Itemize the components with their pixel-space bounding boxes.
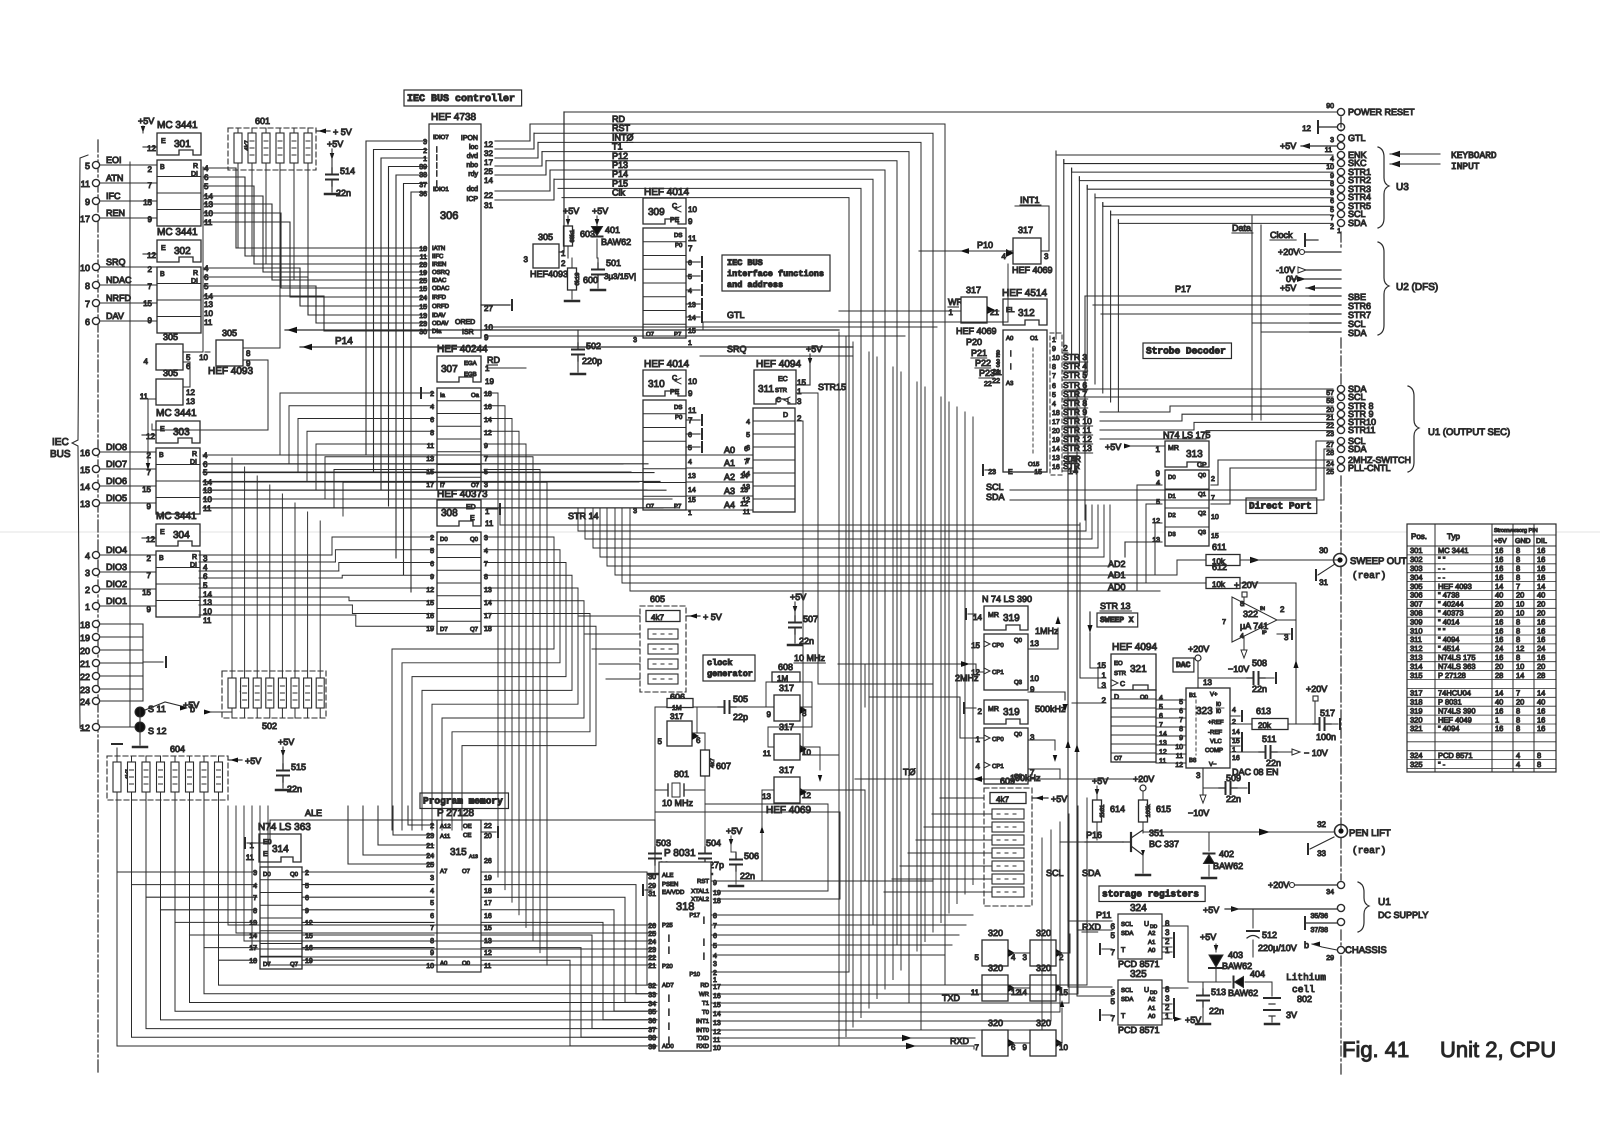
svg-text:B: B xyxy=(160,164,165,171)
svg-text:318: 318 xyxy=(1410,698,1423,707)
svg-text:26: 26 xyxy=(648,923,656,930)
svg-text:12: 12 xyxy=(1302,124,1311,133)
svg-text:+5V: +5V xyxy=(1203,905,1219,915)
svg-text:614: 614 xyxy=(1110,804,1125,814)
svg-text:8: 8 xyxy=(1516,573,1520,582)
svg-text:14: 14 xyxy=(1159,731,1167,738)
svg-text:22n: 22n xyxy=(1226,794,1241,804)
svg-text:+5V: +5V xyxy=(183,700,199,710)
svg-text:512: 512 xyxy=(1262,930,1277,940)
label SWEEP X xyxy=(1087,612,1137,633)
svg-text:12: 12 xyxy=(742,497,750,504)
wire MC3441 to 306 xyxy=(204,168,427,331)
wire DIO to 308 xyxy=(332,537,434,626)
svg-text:21: 21 xyxy=(994,370,1002,377)
svg-text:HEF 4093: HEF 4093 xyxy=(208,366,253,377)
counter U319b N74LS390 xyxy=(964,700,1066,784)
svg-text:P7: P7 xyxy=(674,503,682,510)
svg-text:INT1: INT1 xyxy=(696,1018,710,1025)
svg-text:P14: P14 xyxy=(335,336,353,347)
svg-text:20: 20 xyxy=(484,833,492,840)
svg-text:3: 3 xyxy=(484,482,488,489)
brace U3 xyxy=(1378,147,1409,228)
svg-text:2MHz: 2MHz xyxy=(955,673,979,683)
wire 321 inputs xyxy=(1072,523,1106,703)
svg-text:15: 15 xyxy=(688,328,696,335)
svg-text:STR: STR xyxy=(1114,670,1127,677)
svg-text:16: 16 xyxy=(1537,626,1545,635)
svg-text:REN: REN xyxy=(106,208,125,218)
buffer 320c HEF4049 xyxy=(971,963,1021,1001)
svg-text:22n: 22n xyxy=(1252,684,1267,694)
svg-text:12: 12 xyxy=(147,251,156,260)
svg-text:325: 325 xyxy=(1410,760,1423,769)
buffer 320b HEF4049 xyxy=(1023,928,1064,966)
svg-text:N 74 LS 390: N 74 LS 390 xyxy=(982,594,1032,604)
svg-text:MC 3441: MC 3441 xyxy=(157,227,198,238)
svg-text:A1: A1 xyxy=(724,458,735,468)
wire 500kHz xyxy=(984,740,1057,762)
svg-text:57: 57 xyxy=(1326,390,1334,397)
svg-text:DD: DD xyxy=(1150,924,1158,930)
svg-text:A2: A2 xyxy=(1148,996,1156,1003)
svg-text:15: 15 xyxy=(1211,533,1219,540)
capacitor 505 22p xyxy=(718,694,748,722)
svg-text:1: 1 xyxy=(688,340,692,347)
capacitor 517 100n xyxy=(1306,684,1340,742)
svg-text:SWEEP X: SWEEP X xyxy=(1100,616,1134,625)
IEC BUS bracket xyxy=(50,155,88,731)
svg-text:22n: 22n xyxy=(1266,758,1281,768)
svg-text:U: U xyxy=(1144,921,1149,928)
svg-text:18: 18 xyxy=(484,888,492,895)
buffer 320f HEF4049 xyxy=(1023,1018,1069,1056)
svg-text:320: 320 xyxy=(988,928,1003,938)
svg-text:HEF 4014: HEF 4014 xyxy=(644,359,689,370)
svg-text:+5V: +5V xyxy=(1494,538,1507,545)
label RXD xyxy=(950,1036,970,1046)
connector pin37/38 xyxy=(1305,917,1345,934)
svg-text:11: 11 xyxy=(743,509,750,516)
svg-text:13: 13 xyxy=(186,397,195,406)
svg-text:clock: clock xyxy=(707,658,733,668)
svg-text:A0: A0 xyxy=(1006,335,1014,342)
svg-text:" 40244: " 40244 xyxy=(1438,600,1464,609)
svg-text:2: 2 xyxy=(147,554,152,563)
svg-text:O7: O7 xyxy=(471,482,480,489)
svg-text:|: | xyxy=(668,946,670,954)
svg-text:|: | xyxy=(668,934,670,942)
svg-text:VLC: VLC xyxy=(1210,738,1222,745)
svg-text:O0: O0 xyxy=(1140,694,1149,701)
svg-text:15: 15 xyxy=(797,378,806,387)
svg-text:305: 305 xyxy=(163,332,178,342)
svg-text:7: 7 xyxy=(713,923,717,930)
svg-text:Oa: Oa xyxy=(471,392,480,399)
svg-text:5: 5 xyxy=(1111,931,1116,940)
svg-text:DIO8: DIO8 xyxy=(106,442,127,452)
svg-text:15: 15 xyxy=(1034,469,1042,476)
svg-text:RST: RST xyxy=(697,878,709,885)
svg-text:2: 2 xyxy=(1232,719,1236,726)
svg-text:- -: - - xyxy=(1438,573,1446,582)
svg-text:1MHz: 1MHz xyxy=(1035,626,1059,636)
wire XTAL xyxy=(655,804,840,899)
svg-text:A2: A2 xyxy=(1148,930,1156,937)
svg-text:Q2: Q2 xyxy=(1198,510,1207,517)
svg-text:309: 309 xyxy=(648,207,665,218)
svg-text:403: 403 xyxy=(1228,950,1243,960)
svg-text:6: 6 xyxy=(430,913,434,920)
svg-text:9: 9 xyxy=(148,316,153,325)
svg-text:14: 14 xyxy=(249,933,257,940)
resistor 614 2k61 xyxy=(1092,776,1125,840)
wire DIO rows xyxy=(199,455,663,615)
svg-text:402: 402 xyxy=(1219,849,1234,859)
svg-text:3: 3 xyxy=(423,139,427,146)
svg-text:4: 4 xyxy=(1330,156,1334,163)
wire 306 IDIO staircase xyxy=(366,141,427,592)
svg-text:3: 3 xyxy=(633,508,637,515)
svg-text:16: 16 xyxy=(484,404,492,411)
svg-text:220p: 220p xyxy=(582,356,602,366)
svg-text:16: 16 xyxy=(305,945,313,952)
svg-text:O1: O1 xyxy=(1030,335,1039,342)
svg-text:HEF 4514: HEF 4514 xyxy=(1002,288,1047,299)
label RXD top xyxy=(1082,922,1102,932)
nand gate 305b HEF4093 xyxy=(140,368,196,406)
svg-text:2: 2 xyxy=(430,391,434,398)
svg-text:303: 303 xyxy=(1410,564,1423,573)
svg-text:KEYBOARD: KEYBOARD xyxy=(1451,150,1497,161)
svg-text:509: 509 xyxy=(1226,773,1241,783)
svg-text:32: 32 xyxy=(1317,820,1326,829)
svg-text:E: E xyxy=(161,138,166,145)
resistor 612 10k xyxy=(1206,562,1240,589)
svg-text:7: 7 xyxy=(253,895,257,902)
svg-text:HEF 4069: HEF 4069 xyxy=(766,805,811,816)
connector GTL xyxy=(1302,121,1365,144)
svg-text:16: 16 xyxy=(1495,555,1503,564)
svg-text:D2: D2 xyxy=(1168,512,1176,519)
svg-text:7: 7 xyxy=(430,925,434,932)
svg-text:P25: P25 xyxy=(662,922,673,929)
svg-text:16: 16 xyxy=(1537,635,1545,644)
svg-text:14: 14 xyxy=(1537,689,1545,698)
wire P10 net xyxy=(919,206,1049,254)
svg-text:16: 16 xyxy=(426,613,434,620)
shift register U311 HEF4094 xyxy=(742,344,846,516)
svg-text:15: 15 xyxy=(419,304,427,311)
svg-text:EC: EC xyxy=(778,376,788,383)
svg-text:6: 6 xyxy=(688,432,692,439)
svg-text:24: 24 xyxy=(426,853,434,860)
svg-text:1: 1 xyxy=(1102,671,1107,680)
svg-text:-REF: -REF xyxy=(1208,729,1222,736)
svg-text:HEF 4738: HEF 4738 xyxy=(431,112,476,123)
svg-text:22: 22 xyxy=(80,672,90,682)
svg-text:22: 22 xyxy=(1326,423,1334,430)
svg-text:16: 16 xyxy=(1495,564,1503,573)
svg-text:PE: PE xyxy=(670,389,680,396)
svg-text:P17: P17 xyxy=(1175,284,1191,294)
svg-text:9: 9 xyxy=(85,197,90,207)
parts table xyxy=(1407,524,1556,772)
svg-text:IP: IP xyxy=(1262,630,1267,636)
capacitor 504 27p xyxy=(698,776,724,874)
svg-text:+20V: +20V xyxy=(1306,684,1327,694)
svg-text:6: 6 xyxy=(696,736,701,745)
svg-text:501: 501 xyxy=(606,258,621,268)
svg-text:612: 612 xyxy=(1212,562,1227,572)
label IEC BUS interface functions xyxy=(722,255,830,291)
svg-text:10: 10 xyxy=(426,963,434,970)
svg-text:320: 320 xyxy=(988,1018,1003,1028)
wire SDA SCL U1 xyxy=(1010,389,1333,500)
svg-text:10: 10 xyxy=(688,377,697,386)
svg-text:21: 21 xyxy=(1326,415,1334,422)
svg-text:4: 4 xyxy=(1516,751,1520,760)
svg-text:4k7: 4k7 xyxy=(709,758,716,768)
svg-text:2: 2 xyxy=(996,352,1000,359)
svg-text:2: 2 xyxy=(1165,1003,1170,1012)
svg-text:1: 1 xyxy=(995,308,1000,317)
svg-text:DIO4: DIO4 xyxy=(106,545,127,555)
svg-text:N74LS 390: N74LS 390 xyxy=(1438,706,1476,715)
svg-text:5: 5 xyxy=(1052,392,1056,399)
svg-text:23: 23 xyxy=(648,947,656,954)
svg-text:15: 15 xyxy=(142,485,151,494)
svg-text:18: 18 xyxy=(484,626,492,633)
svg-text:13: 13 xyxy=(1030,639,1039,648)
svg-text:2: 2 xyxy=(85,585,90,595)
svg-text:10: 10 xyxy=(484,323,493,332)
svg-text:3: 3 xyxy=(713,961,717,968)
capacitor 509 22n xyxy=(1188,768,1249,818)
svg-text:314: 314 xyxy=(1410,662,1423,671)
svg-text:12: 12 xyxy=(1152,518,1160,525)
svg-text:321: 321 xyxy=(1410,724,1423,733)
svg-text:100k: 100k xyxy=(1145,803,1152,817)
capacitor 503 22p xyxy=(648,790,674,874)
wire 311 outputs xyxy=(796,330,933,755)
svg-text:(rear): (rear) xyxy=(1352,845,1386,856)
svg-text:6: 6 xyxy=(1159,713,1163,720)
svg-text:17: 17 xyxy=(484,613,492,620)
svg-text:19: 19 xyxy=(484,875,492,882)
capacitor 514 22n xyxy=(325,139,355,198)
svg-text:13: 13 xyxy=(742,484,750,491)
svg-text:17: 17 xyxy=(426,482,434,489)
svg-text:8: 8 xyxy=(1516,546,1520,555)
svg-text:16: 16 xyxy=(1537,555,1545,564)
svg-text:301: 301 xyxy=(174,139,191,150)
svg-text:U: U xyxy=(1144,987,1149,994)
svg-text:511: 511 xyxy=(1262,734,1276,744)
svg-text:+ 5V: + 5V xyxy=(333,127,352,137)
svg-text:26: 26 xyxy=(484,858,492,865)
IEC connector pins 18-24 xyxy=(80,620,166,707)
svg-text:11: 11 xyxy=(688,406,697,415)
svg-text:SRQ: SRQ xyxy=(106,257,126,267)
wire P14 xyxy=(285,327,853,350)
svg-text:302: 302 xyxy=(1410,555,1423,564)
svg-text:CP1: CP1 xyxy=(992,763,1004,770)
svg-text:BAW62: BAW62 xyxy=(601,237,631,247)
svg-text:306: 306 xyxy=(440,210,458,222)
diode 404 BAW62 xyxy=(1188,969,1272,998)
resistor 603 68k1 xyxy=(563,206,595,258)
svg-text:XTAL2: XTAL2 xyxy=(691,896,710,903)
svg-text:|: | xyxy=(703,952,705,960)
svg-text:29: 29 xyxy=(648,883,656,890)
svg-text:E: E xyxy=(1008,469,1013,476)
svg-text:37/38: 37/38 xyxy=(1310,926,1328,934)
svg-text:307: 307 xyxy=(441,364,458,375)
strobe decoder U312 HEF4514 xyxy=(983,288,1047,476)
wire 306 outputs to bus xyxy=(495,124,554,200)
svg-text:502: 502 xyxy=(586,341,601,351)
wire 318 P1 ports risers xyxy=(713,915,973,955)
svg-text:319: 319 xyxy=(1410,706,1423,715)
svg-text:8: 8 xyxy=(246,349,251,358)
svg-text:11: 11 xyxy=(971,988,980,997)
svg-text:A3: A3 xyxy=(724,486,735,496)
svg-text:NRFD: NRFD xyxy=(106,293,131,303)
wire 609 rows xyxy=(884,798,992,892)
svg-text:9: 9 xyxy=(147,605,152,614)
wire AD bus nest left xyxy=(117,800,657,1046)
svg-text:17: 17 xyxy=(484,900,492,907)
svg-text:320: 320 xyxy=(1036,928,1051,938)
wire top bus RD-Clk xyxy=(530,114,945,1030)
svg-text:1: 1 xyxy=(1165,1012,1170,1021)
bus buffer U307 HEF40244 xyxy=(421,344,500,490)
svg-text:9: 9 xyxy=(1030,685,1035,694)
svg-text:28: 28 xyxy=(1537,671,1545,680)
svg-text:E: E xyxy=(160,529,165,536)
svg-text:314: 314 xyxy=(272,844,289,855)
svg-text:16: 16 xyxy=(1537,564,1545,573)
svg-text:3: 3 xyxy=(996,362,1000,369)
svg-text:16: 16 xyxy=(1537,724,1545,733)
svg-text:25: 25 xyxy=(1326,469,1334,476)
latch U308 HEF40373 xyxy=(426,489,500,634)
svg-text:P 8031: P 8031 xyxy=(1438,698,1462,707)
svg-text:6: 6 xyxy=(713,933,717,940)
svg-text:+20V: +20V xyxy=(1278,247,1299,257)
svg-text:29: 29 xyxy=(1326,955,1334,962)
svg-text:24: 24 xyxy=(419,295,427,302)
svg-text:3: 3 xyxy=(1102,681,1107,690)
wire 320 links xyxy=(1008,934,1076,1043)
svg-text:40: 40 xyxy=(1495,698,1503,707)
svg-text:P16: P16 xyxy=(1086,830,1102,840)
svg-text:13: 13 xyxy=(762,792,771,801)
svg-text:SDA: SDA xyxy=(1348,218,1367,228)
svg-text:Q0: Q0 xyxy=(1014,637,1023,644)
IEC connector SRQ/NDAC/NRFD/DAV xyxy=(80,257,157,327)
svg-text:IEC BUS: IEC BUS xyxy=(727,258,763,268)
svg-text:WR: WR xyxy=(699,991,710,998)
svg-text:|: | xyxy=(703,938,705,946)
svg-text:11: 11 xyxy=(81,179,90,189)
wire 601 pulldowns xyxy=(238,170,308,288)
svg-text:5: 5 xyxy=(688,274,692,281)
svg-text:R: R xyxy=(192,554,197,561)
svg-text:B: B xyxy=(159,555,164,562)
svg-text:Q0: Q0 xyxy=(1014,731,1023,738)
svg-text:303: 303 xyxy=(173,427,190,438)
svg-text:32: 32 xyxy=(484,149,493,158)
svg-text:5: 5 xyxy=(1330,207,1334,214)
wire 305 gates xyxy=(130,162,280,727)
svg-text:1: 1 xyxy=(1232,747,1236,754)
svg-text:ALE: ALE xyxy=(305,808,322,818)
svg-text:RD: RD xyxy=(487,355,500,365)
svg-text:19: 19 xyxy=(485,377,494,386)
svg-text:100n: 100n xyxy=(1316,732,1336,742)
svg-text:12: 12 xyxy=(147,144,156,153)
svg-text:324: 324 xyxy=(1410,751,1423,760)
wire WR net xyxy=(839,310,999,312)
svg-text:611: 611 xyxy=(1212,542,1226,552)
svg-text:MC 3441: MC 3441 xyxy=(1438,546,1468,555)
label T0 xyxy=(903,767,916,777)
svg-text:|: | xyxy=(668,1036,670,1044)
svg-text:12: 12 xyxy=(484,950,492,957)
svg-text:8: 8 xyxy=(1330,181,1334,188)
svg-text:I0: I0 xyxy=(1216,701,1222,708)
svg-text:+5V: +5V xyxy=(1200,932,1216,942)
svg-text:+ 5V: + 5V xyxy=(703,612,722,622)
svg-text:1: 1 xyxy=(1052,337,1056,344)
svg-text:310: 310 xyxy=(1410,626,1423,635)
svg-text:40: 40 xyxy=(1495,591,1503,600)
svg-text:21: 21 xyxy=(426,843,434,850)
svg-text:7: 7 xyxy=(975,1043,980,1052)
svg-text:A3: A3 xyxy=(1006,380,1014,387)
svg-text:5: 5 xyxy=(746,432,750,439)
svg-text:6k19: 6k19 xyxy=(574,272,581,286)
svg-text:EL: EL xyxy=(1006,307,1015,314)
svg-text:24: 24 xyxy=(80,697,90,707)
svg-text:18: 18 xyxy=(1052,410,1060,417)
svg-text:317: 317 xyxy=(670,712,684,721)
label SCL SDA near 312 xyxy=(986,482,1005,502)
svg-text:14: 14 xyxy=(1052,446,1060,453)
svg-text:30: 30 xyxy=(648,874,656,881)
label STR14 right xyxy=(1063,454,1082,476)
svg-text:317: 317 xyxy=(779,765,794,775)
connector U3 keyboard rows xyxy=(1326,150,1371,235)
svg-text:58: 58 xyxy=(1326,398,1334,405)
svg-text:+20V: +20V xyxy=(1188,644,1209,654)
svg-text:OE: OE xyxy=(463,823,472,830)
svg-text:A11: A11 xyxy=(440,833,451,840)
svg-text:ALE: ALE xyxy=(662,872,673,879)
svg-text:22n: 22n xyxy=(1209,1006,1224,1016)
resistor 615 100k xyxy=(1133,774,1171,833)
transistor 351 BC337 xyxy=(1123,828,1179,875)
svg-text:E: E xyxy=(161,245,166,252)
svg-text:8: 8 xyxy=(1516,635,1520,644)
svg-text:313: 313 xyxy=(1186,449,1203,460)
svg-text:601: 601 xyxy=(255,116,270,126)
svg-text:502: 502 xyxy=(262,721,277,731)
svg-text:6: 6 xyxy=(688,260,692,267)
label 100kHz xyxy=(1010,773,1041,783)
